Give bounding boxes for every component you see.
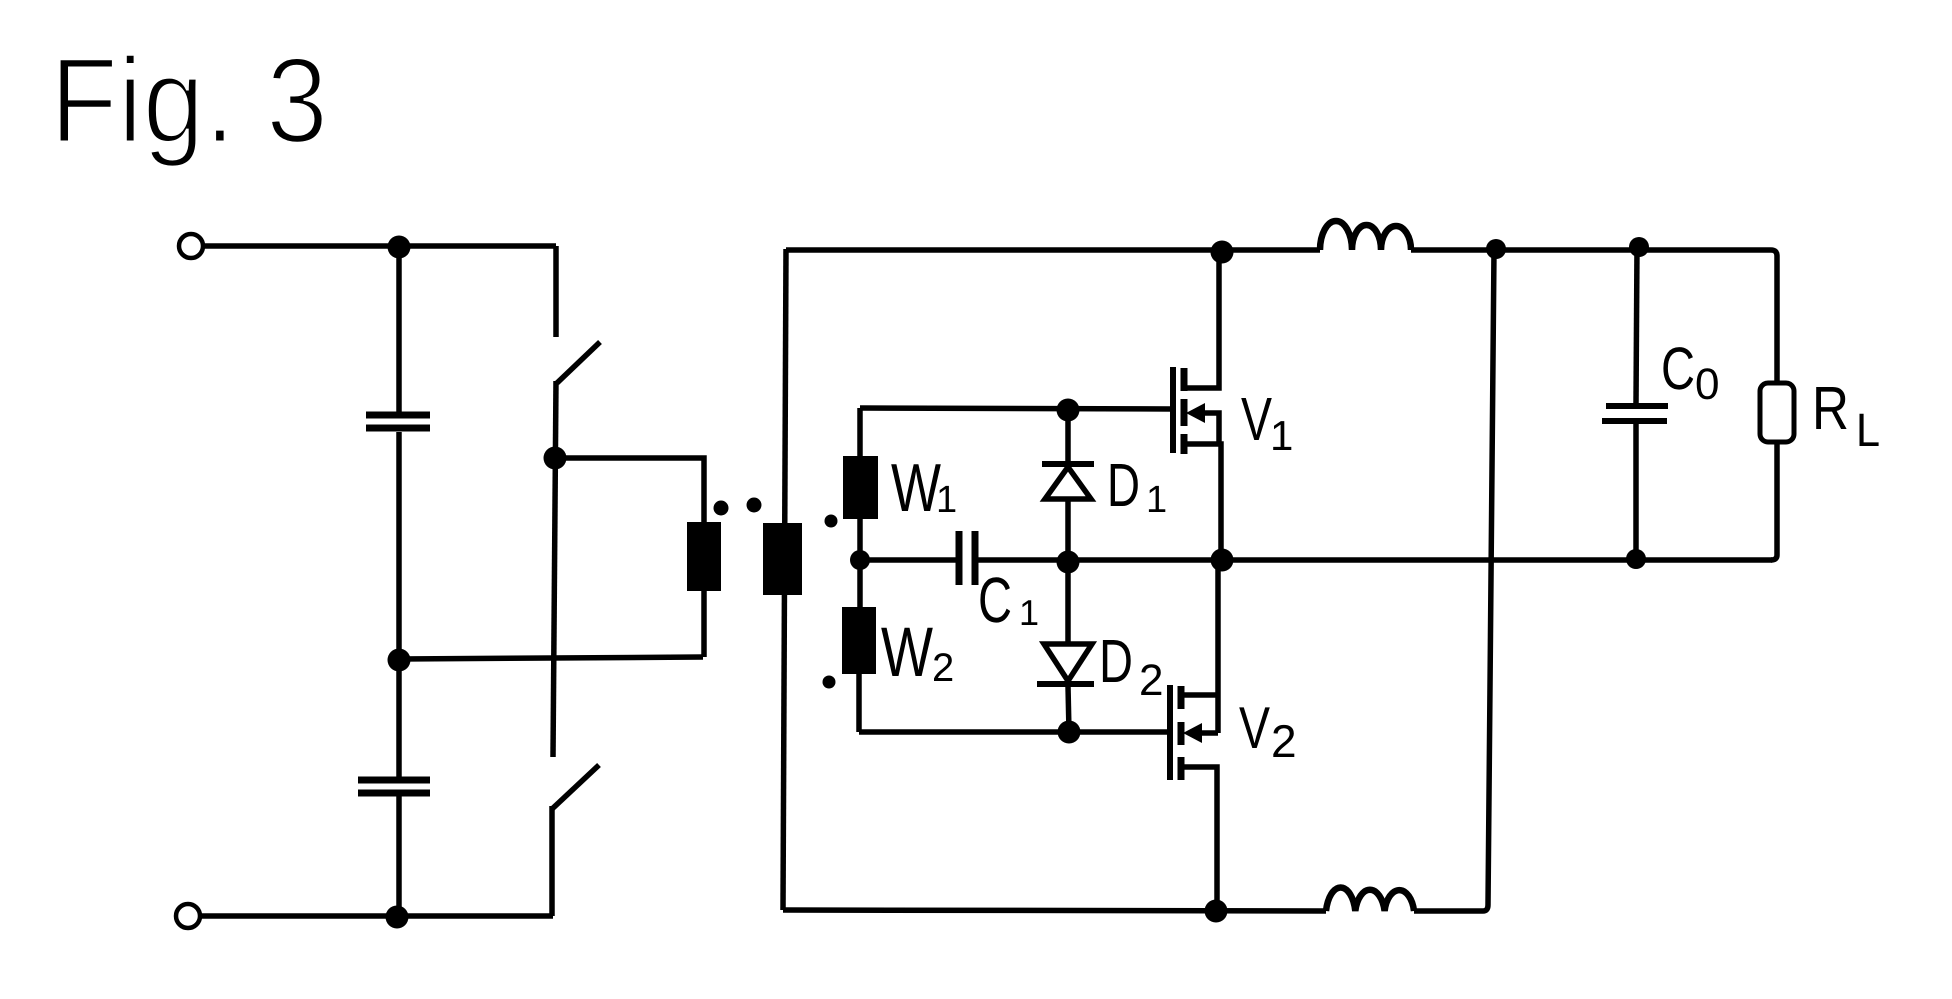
wire primary winding bottom lead xyxy=(701,591,707,657)
diode D2 cathode bar xyxy=(1037,681,1094,687)
input terminal (top left) xyxy=(179,234,203,258)
label W2 xyxy=(881,628,933,676)
label V2 xyxy=(1239,707,1270,748)
inductor L2 (bottom) xyxy=(1326,887,1414,911)
wire left rail upper xyxy=(396,247,402,412)
resistor RL bottom lead xyxy=(1771,442,1777,560)
label C0 xyxy=(1663,347,1693,390)
label D1 xyxy=(1111,464,1138,506)
capacitor (upper input divider) xyxy=(366,412,430,419)
capacitor C1 xyxy=(956,531,963,585)
node C0 top junction xyxy=(1629,237,1649,257)
transistor V1 drain lead xyxy=(1186,252,1219,388)
node V1 drain top junction xyxy=(1211,241,1234,264)
node bottom-left rail junction xyxy=(386,906,409,929)
transistor V2 body arrow xyxy=(1183,723,1202,743)
winding W2 bottom lead xyxy=(856,674,862,732)
wire inner top (W1 to V1 gate) xyxy=(860,408,1173,409)
capacitor (lower input divider) xyxy=(358,777,430,784)
transformer primary winding xyxy=(687,522,721,591)
node right rail top junction xyxy=(1486,239,1506,259)
transistor V2 channel segments xyxy=(1178,686,1185,709)
switch S2 blade xyxy=(552,765,599,809)
winding W2 polarity dot xyxy=(823,676,836,689)
capacitor C0 top lead xyxy=(1636,247,1637,404)
wire W1 bottom to center tap xyxy=(857,519,863,560)
diode D2 bottom lead xyxy=(1068,686,1069,732)
wire left rail bottom xyxy=(396,796,402,916)
capacitor C0 bottom lead xyxy=(1633,424,1639,559)
transistor V2 source lead xyxy=(1183,767,1217,911)
wire switch rail upper segment xyxy=(553,246,559,337)
wire secondary-side left rail xyxy=(783,249,786,910)
node C0 bottom junction xyxy=(1626,549,1646,569)
inductor L1 (top) xyxy=(1320,221,1411,250)
wire top-left input to switch rail xyxy=(204,243,556,249)
winding W1 xyxy=(843,456,878,519)
wire left rail mid xyxy=(396,432,402,658)
label RL xyxy=(1816,387,1846,429)
transistor V1 gate bar xyxy=(1170,367,1176,453)
wire secondary box top xyxy=(786,247,1320,253)
node D1-D2 midpoint junction xyxy=(1057,551,1080,574)
diode D1 anode lead xyxy=(1065,410,1071,463)
diode D2 top lead xyxy=(1065,562,1071,644)
label D2 xyxy=(1103,640,1131,682)
label W1 xyxy=(891,464,941,511)
winding W1 top lead xyxy=(857,408,863,456)
transistor V1 source lead xyxy=(1186,444,1221,560)
switch S1 blade xyxy=(557,342,600,383)
wire center tap to C1 xyxy=(860,557,956,563)
diode D2 triangle xyxy=(1044,644,1092,681)
winding W2 xyxy=(842,607,876,674)
wire middle rail (C1 to load) xyxy=(978,557,1772,563)
transistor V1 body arrow xyxy=(1186,403,1205,423)
input terminal (bottom left) xyxy=(176,904,200,928)
resistor RL xyxy=(1760,383,1794,442)
label V1 xyxy=(1241,398,1272,440)
wire inner bottom (W2 to V2 gate) xyxy=(859,729,1170,735)
wire switch midpoint to primary winding xyxy=(555,458,704,523)
node V2 source bottom junction xyxy=(1205,900,1228,923)
wire bottom inductor to right rail xyxy=(1414,251,1494,911)
node left rail middle junction xyxy=(388,649,411,672)
transformer secondary winding xyxy=(763,523,802,595)
node switch midpoint junction xyxy=(544,447,567,470)
node D1 top junction xyxy=(1057,399,1080,422)
diode D1 cathode bar xyxy=(1042,461,1094,467)
wire switch rail lower segment xyxy=(549,806,555,916)
node V1 source / V2 drain junction xyxy=(1211,549,1234,572)
transistor V2 drain lead xyxy=(1183,560,1218,733)
transistor V1 body lead xyxy=(1202,413,1219,444)
figure title Fig. 3 xyxy=(59,54,323,167)
capacitor C0 plates xyxy=(1606,403,1668,409)
label C1 xyxy=(980,577,1010,622)
transistor V2 body lead xyxy=(1199,730,1218,736)
diode D1 triangle xyxy=(1045,467,1091,499)
node top-left rail junction xyxy=(388,236,411,259)
wire left rail lower xyxy=(396,660,402,777)
transistor V1 channel segments xyxy=(1181,368,1188,391)
wire switch rail middle segment xyxy=(553,381,556,757)
wire primary return (middle horizontal to transformer) xyxy=(399,657,703,659)
wire center tap to W2 xyxy=(857,560,863,607)
node center tap junction xyxy=(850,550,870,570)
wire top right xyxy=(1411,250,1777,383)
wire bottom-left input to switch rail xyxy=(201,913,553,919)
transistor V2 gate bar xyxy=(1167,685,1173,780)
winding W1 polarity dot xyxy=(825,515,838,528)
node D2 bottom junction xyxy=(1058,721,1081,744)
transformer polarity dot (primary) xyxy=(714,501,729,516)
diode D1 bottom lead xyxy=(1065,499,1071,562)
wire secondary box bottom xyxy=(783,910,1326,911)
transformer polarity dot (secondary) xyxy=(747,498,762,513)
